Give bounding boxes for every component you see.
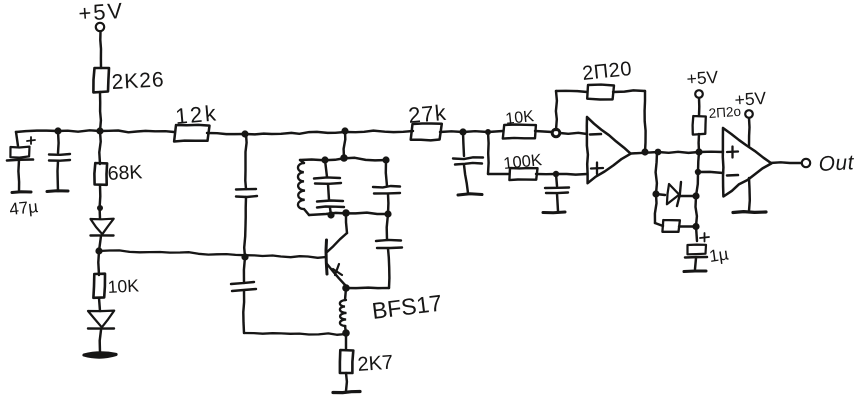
wire plus node to opamp1 plus — [556, 173, 587, 176]
wire to R 2k7 — [345, 333, 347, 350]
wire bus osc node to tank node — [245, 132, 345, 135]
op-amp U2 — [723, 128, 772, 197]
junction tank bottom left — [327, 211, 334, 218]
plus sign 47u — [27, 137, 35, 144]
tank top wire — [300, 158, 386, 161]
wire tank left top — [300, 160, 304, 163]
resistor Rlim — [662, 220, 680, 232]
label 2M20 (feedback) — [581, 58, 633, 85]
wire Ct3 to tank bottom — [387, 194, 390, 214]
wire bus to R 12k — [100, 131, 174, 133]
svg-text:2K7: 2K7 — [357, 352, 394, 376]
capacitor Cin plates — [453, 157, 483, 164]
wire opamp2 to ground — [748, 178, 751, 211]
junction emitter bottom — [342, 329, 350, 337]
wire to opamp2 plus — [699, 150, 723, 153]
svg-text:Out: Out — [818, 151, 855, 176]
label 2M2o — [708, 104, 741, 121]
wire limiter left down — [655, 194, 657, 223]
tank bottom wire — [309, 213, 388, 215]
ground (C2) — [47, 189, 68, 193]
op-amp U2 minus sign — [727, 174, 738, 177]
svg-text:+5V: +5V — [686, 67, 719, 89]
junction tank bottom mid — [342, 209, 350, 217]
diode D2 — [88, 311, 114, 329]
Out terminal — [802, 159, 810, 167]
junction Cin — [459, 128, 466, 135]
wire L1 to tank bottom — [304, 209, 309, 215]
resistor 2k7 — [340, 350, 353, 373]
label 1u — [708, 244, 730, 266]
wire vert diode to Rlim — [696, 196, 697, 227]
junction main bus / 2K26 / 68K — [96, 127, 103, 134]
wire plus node drop — [556, 174, 557, 186]
wire cap column drop 4 — [242, 291, 245, 333]
ground (1u) — [684, 270, 706, 274]
junction bus / C2 — [54, 127, 61, 134]
svg-text:10K: 10K — [107, 275, 139, 297]
svg-text:68K: 68K — [107, 161, 143, 185]
label 2k7 — [357, 352, 394, 376]
ground (2k7) — [333, 392, 360, 393]
junction minus tap — [695, 169, 701, 175]
+5V terminal (opamp2) — [745, 110, 753, 118]
wire Cin drop — [463, 132, 464, 156]
capacitor 47u electrolytic top plate — [10, 147, 29, 158]
capacitor 1u electrolytic top plate — [688, 245, 707, 255]
wire bias node to transistor base — [99, 250, 326, 257]
+5V terminal (top left) — [96, 23, 104, 31]
wire R 10K to diode D2 — [99, 298, 100, 311]
junction out/limiter — [655, 149, 662, 156]
wire Cplus to ground — [557, 194, 558, 212]
wire between Ct1 Ct2 — [328, 184, 329, 200]
transistor Q1 collector stroke — [327, 233, 347, 252]
wire diode anode — [656, 194, 665, 195]
wire 47u drop — [16, 132, 18, 146]
label 68K — [107, 161, 143, 185]
label Out — [818, 151, 855, 176]
junction diode right — [692, 192, 699, 199]
+5V label (opamp2) — [734, 88, 767, 110]
resistor 27k — [411, 124, 442, 141]
capacitor Ct2 plates — [317, 201, 344, 208]
capacitor Cplus plates — [545, 188, 569, 194]
wire tank bottom to Cfb — [387, 214, 388, 240]
resistor 100K — [509, 168, 537, 180]
wire 100K to plus node — [536, 173, 556, 176]
capacitor 1u bottom plate — [685, 256, 707, 259]
wire cap column drop 2 — [244, 197, 246, 257]
op-amp U1 minus sign — [590, 133, 601, 136]
wire 27k to Cin node — [440, 130, 463, 133]
inductor L2 — [340, 300, 347, 326]
svg-text:27k: 27k — [407, 100, 448, 128]
wire tank mid drop — [325, 160, 327, 177]
wire out to opamp2 node — [658, 152, 699, 153]
wire tank right drop — [386, 160, 387, 186]
junction divider — [485, 129, 491, 135]
svg-text:47µ: 47µ — [8, 197, 39, 219]
capacitor Ct1 plates — [314, 177, 341, 183]
wire to R 10K — [488, 131, 503, 132]
transistor Q1 base bar — [326, 240, 327, 274]
svg-text:2K26: 2K26 — [111, 68, 165, 94]
wire vert to diode level — [696, 172, 698, 196]
svg-text:10K: 10K — [505, 108, 535, 128]
capacitor Ct3 plates — [373, 186, 400, 194]
svg-text:+5V: +5V — [734, 88, 767, 110]
label 10K (mid) — [505, 108, 535, 128]
label 10K (left) — [107, 275, 139, 297]
wire Ct2 to tank bottom — [330, 208, 331, 215]
wire divider down — [487, 132, 490, 174]
wire feedback top right — [613, 90, 645, 92]
svg-text:12k: 12k — [174, 100, 219, 129]
wire R 2K26 to main bus — [99, 92, 102, 131]
junction tank bottom right — [384, 210, 391, 217]
op-amp U1 — [587, 117, 631, 183]
resistor 2K26 — [93, 68, 109, 92]
wire bottom return to emitter node — [244, 333, 346, 335]
wire pullup node down — [698, 152, 699, 172]
wire R 2k7 to ground — [345, 373, 348, 391]
ground (47u) — [12, 190, 31, 194]
ground (opamp2) — [733, 210, 766, 214]
junction Rlim right — [692, 223, 699, 230]
wire bus tank node to R 27k — [345, 131, 413, 133]
op-amp U2 plus sign — [727, 147, 738, 158]
inductor L1 — [298, 163, 305, 209]
resistor 10K (left) — [93, 274, 105, 298]
wire D2 to ground — [100, 330, 101, 353]
node ring inv input — [552, 129, 560, 137]
resistor 10K (mid) — [503, 125, 536, 139]
wire C2 to ground — [56, 161, 59, 191]
wire Cfb to emitter node — [346, 286, 389, 289]
wire Rlim to vert — [679, 225, 696, 227]
wire feedback up — [556, 91, 557, 130]
diode D1 — [91, 219, 114, 236]
wire L2 to node — [345, 326, 346, 333]
ground (left column, filled) — [84, 353, 116, 357]
wire D1 to node bias — [99, 236, 101, 251]
label 27k — [407, 100, 448, 128]
label 100K — [503, 151, 543, 173]
wire cap column drop 1 — [245, 134, 246, 189]
junction limiter left — [652, 190, 659, 197]
capacitor 47u bottom plate — [7, 160, 33, 161]
capacitor Cosc1 plates — [236, 189, 257, 197]
label 47u — [8, 197, 39, 219]
wire 47u to ground — [17, 160, 20, 192]
wire to opamp2 minus — [698, 172, 723, 173]
op-amp U1 plus sign — [591, 163, 603, 175]
wire bias node to R 10K — [97, 251, 100, 275]
junction plus node — [553, 171, 559, 177]
resistor 68K — [94, 163, 107, 185]
resistor 2M2o pullup — [693, 116, 706, 135]
wire 10K to inv node — [535, 131, 552, 132]
junction tank top feed — [340, 154, 348, 162]
wire opamp2 out — [770, 161, 801, 164]
capacitor C2 plates — [49, 154, 70, 161]
junction pullup node — [695, 148, 702, 155]
label BFS17 — [370, 290, 443, 324]
wire tank feed drop — [344, 131, 346, 158]
junction tank feed — [341, 127, 348, 134]
junction emitter node — [342, 284, 350, 292]
capacitor Cosc2 plates — [231, 282, 256, 291]
+5V label (pullup) — [686, 67, 719, 89]
wire to R 100K — [488, 173, 509, 175]
junction tank top left — [321, 156, 328, 163]
wire +5V to opamp2 — [748, 118, 751, 146]
wire opamp1 out — [631, 152, 658, 154]
junction bias node — [95, 247, 102, 254]
label 12k — [174, 100, 219, 129]
junction 68K/D1 — [97, 205, 103, 211]
wire diode cathode — [679, 195, 696, 197]
wire limiter corner — [655, 223, 663, 226]
wire emitter to L2 — [345, 288, 346, 300]
wire limiter drop — [656, 152, 657, 194]
ground (Cplus) — [543, 211, 565, 215]
wire tank bottom to collector — [346, 213, 347, 233]
label 2K26 — [111, 68, 165, 94]
+5V terminal (pullup) — [695, 90, 703, 98]
wire +5V to R 2K26 — [99, 32, 102, 69]
resistor 2M20 (feedback) — [587, 85, 614, 100]
wire Cfb down — [388, 249, 389, 289]
junction tank top right — [382, 156, 389, 163]
junction osc cap column — [241, 130, 248, 137]
wire Cin node to divider node — [463, 130, 488, 133]
transistor Q1 emitter stroke — [327, 264, 346, 286]
wire bus seg2 — [58, 130, 100, 131]
+5V label (top left) — [78, 0, 125, 26]
transistor Q1 emitter arrow — [333, 264, 342, 275]
wire bus to C 47u — [16, 131, 58, 132]
plus sign 1u — [700, 233, 709, 242]
wire 2M2o down — [697, 134, 700, 152]
wire feedback down — [645, 91, 646, 152]
wire bus to R 68K — [99, 131, 100, 164]
wire cap column drop 3 — [244, 257, 245, 283]
junction base wire / cap column — [241, 253, 248, 260]
svg-text:1µ: 1µ — [708, 244, 730, 266]
wire Cin to ground — [464, 165, 468, 193]
wire feedback top left — [556, 91, 587, 92]
ground (Cin) — [458, 194, 482, 195]
wire inv node to opamp1 minus — [560, 133, 587, 134]
capacitor Cfb plates — [376, 240, 402, 248]
capacitor C2 drop — [57, 131, 60, 153]
wire 12k to osc node — [207, 133, 245, 134]
wire vert to C 1u — [696, 227, 697, 242]
wire +5V to 2M2o — [698, 98, 701, 116]
wire R 68K to diode D1 — [98, 185, 101, 219]
resistor 12k — [174, 125, 209, 142]
junction feedback/out — [641, 148, 648, 155]
diode D3 — [667, 182, 681, 206]
wire 1u to ground — [695, 258, 696, 269]
